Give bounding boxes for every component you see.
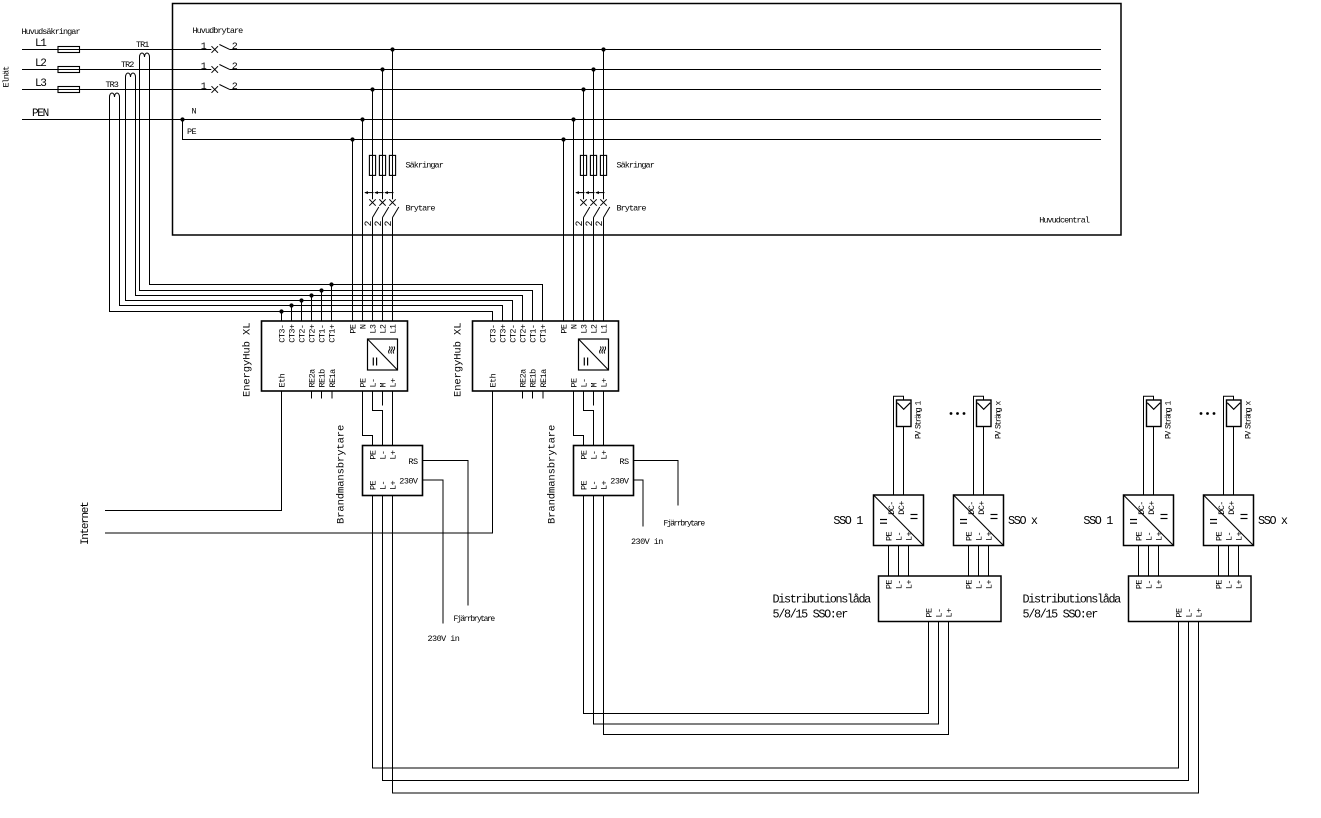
wire RE2a stub U1 [311,391,313,399]
svg-text:Elnät: Elnät [2,66,12,88]
svg-text:Huvudcentral: Huvudcentral [1039,216,1090,226]
wire L- SSO x->dist [978,546,980,577]
svg-text:M: M [379,383,389,388]
node L3 tap (group 1) [370,87,374,91]
svg-text:PE: PE [570,378,580,388]
svg-text:230V: 230V [610,477,630,487]
svg-text:PEN: PEN [32,108,49,120]
svg-text:L3: L3 [580,324,590,334]
wire RS->Fjarrbrytare S2 [634,461,679,506]
svg-text:L+: L+ [389,480,399,490]
svg-text:CT3+: CT3+ [499,324,509,343]
breaker Brytare L1 (group 2) [596,192,605,194]
svg-text:L-: L- [1225,532,1235,541]
fuse Sakringar L1 (group 1) [389,155,395,175]
wire L+ Brandmansbrytare2 -> Distributionslada 1 [604,496,949,735]
svg-text:2: 2 [232,62,238,73]
wire PV 1 DC+ [1153,427,1155,496]
svg-text:N: N [192,107,197,117]
svg-text:PE: PE [369,480,379,490]
transformer TR2 [126,73,136,77]
svg-text:230V in: 230V in [631,537,663,547]
svg-text:230V: 230V [399,477,419,487]
svg-text:N: N [570,324,580,329]
node PE tap (group 1) [350,137,354,141]
fuse Sakringar L3 (group 1) [369,155,375,175]
wire L- EnergyHub->Brandmansbrytare 2 [584,391,594,446]
svg-text:L-: L- [895,532,905,541]
wire PV x DC- (over top) [1224,396,1234,495]
svg-text:TR2: TR2 [121,60,134,70]
node L2 tap (group 1) [380,67,384,71]
svg-text:CT1+: CT1+ [539,324,549,343]
svg-text:L-: L- [1145,532,1155,541]
box Huvudcentral (main distribution board) [173,4,1122,236]
svg-text:RE1b: RE1b [529,369,539,388]
wire PE SSO x->dist [1218,546,1220,577]
svg-text:PE: PE [965,580,975,590]
svg-text:PE: PE [187,127,197,137]
svg-text:Fjärrbrytare: Fjärrbrytare [454,615,496,624]
svg-text:L-: L- [590,481,600,490]
svg-text:Eth: Eth [278,373,288,387]
wire L2 drop (group 1) [382,70,384,200]
svg-text:CT2+: CT2+ [519,324,529,343]
wire L2 drop (group 2) [593,70,595,200]
wire L- Brandmansbrytare2 -> Distributionslada 1 [594,496,939,725]
svg-text:L1: L1 [389,324,399,334]
node PE tap (group 2) [561,137,565,141]
svg-text:L-: L- [975,580,985,589]
node L3 tap (group 2) [581,87,585,91]
breaker Brytare L3 (group 2) [576,192,585,194]
wire L- SSO x->dist [1228,546,1230,577]
wire L1 drop (group 1) [392,50,394,200]
svg-text:DC-: DC- [967,501,977,515]
svg-text:Distributionslåda: Distributionslåda [773,593,872,607]
SSO optimizer box (string 1) [1124,495,1174,546]
wire CT2- from TR to hubs [126,77,513,321]
wire L+ SSO 1->dist [908,546,910,577]
wire L+ Brandmansbrytare1 -> Distributionslada 2 [393,496,1199,794]
svg-text:PE: PE [1175,608,1185,618]
svg-text:L+: L+ [985,531,995,541]
svg-text:PV Sträng x: PV Sträng x [1245,400,1254,439]
symbol DC right SSO x [991,514,998,516]
svg-text:PE: PE [1215,531,1225,541]
svg-text:CT2-: CT2- [298,325,308,343]
node L2 tap (group 2) [591,67,595,71]
symbol DC left SSO x [1210,519,1217,521]
wire PE Brandmansbrytare2 -> Distributionslada 1 [584,496,929,714]
svg-text:L+: L+ [905,580,915,590]
svg-text:RE1a: RE1a [539,369,549,388]
node CT3- junction at EnergyHub 1 [279,309,283,313]
wire RE1a stub U1 [331,391,333,399]
fuse main F-L2 [58,67,80,73]
PV panel string x [1227,400,1242,427]
SSO optimizer box (string x) [1204,495,1254,546]
svg-text:2: 2 [595,221,606,227]
fuse Sakringar L2 (group 1) [379,155,385,175]
wire PV 1 DC- (over top) [894,396,904,495]
svg-text:Huvudbrytare: Huvudbrytare [193,26,244,36]
wire RE1b stub U1 [321,391,323,399]
svg-text:PV Sträng 1: PV Sträng 1 [915,400,924,439]
wire PV x DC- (over top) [974,396,984,495]
wire phase L3 [22,89,211,91]
svg-text:Huvudsäkringar: Huvudsäkringar [22,27,81,37]
fuse main F-L1 [58,47,80,53]
svg-text:L-: L- [1225,580,1235,589]
svg-text:2: 2 [232,82,238,93]
svg-text:TR3: TR3 [106,80,119,90]
svg-text:Eth: Eth [489,373,499,387]
wire N drop (group 2) [573,120,575,322]
svg-text:L2: L2 [35,58,46,70]
svg-text:L+: L+ [600,450,610,460]
wire CT1+ from TR to hubs [150,57,543,321]
svg-text:EnergyHub XL: EnergyHub XL [453,323,465,397]
symbol DC left SSO 1 [1130,519,1137,521]
inverter symbol U2 [579,339,609,370]
svg-text:DC+: DC+ [897,501,907,515]
wire L+ SSO 1->dist [1158,546,1160,577]
wire RS->Fjarrbrytare S1 [423,461,469,606]
node dots (more strings) [1200,412,1203,415]
svg-text:L3: L3 [35,78,46,90]
node CT2+ junction at EnergyHub 1 [309,293,313,297]
wire PE EnergyHub->Brandmansbrytare 1 [363,391,373,446]
svg-text:5/8/15 SSO:er: 5/8/15 SSO:er [773,608,849,622]
symbol DC right SSO x [1241,514,1248,516]
svg-text:N: N [359,324,369,329]
svg-text:Distributionslåda: Distributionslåda [1023,593,1122,607]
wire CT2+ from TR to hubs [136,77,523,321]
SSO optimizer box (string 1) [874,495,924,546]
wire L- Brandmansbrytare1 -> Distributionslada 2 [383,496,1189,781]
svg-text:PE: PE [965,531,975,541]
PV panel string x [977,400,992,427]
svg-text:RE1b: RE1b [318,369,328,388]
Distributionslada box [879,576,1002,622]
svg-text:Säkringar: Säkringar [617,161,655,171]
svg-text:L+: L+ [945,608,955,618]
node N tap (group 1) [360,117,364,121]
svg-text:EnergyHub XL: EnergyHub XL [242,323,254,397]
Brandmansbrytare switch S1 box [363,446,423,496]
wire PE SSO 1->dist [1138,546,1140,577]
breaker Brytare L2 (group 1) [375,192,384,194]
wire RE2a stub U2 [522,391,524,399]
svg-text:PE: PE [359,378,369,388]
EnergyHub XL unit U1 box [262,321,408,391]
symbol DC right SSO 1 [1161,514,1168,516]
wire PE EnergyHub->Brandmansbrytare 2 [574,391,584,446]
svg-text:L2: L2 [379,324,389,334]
svg-text:L-: L- [590,451,600,460]
wire PE SSO 1->dist [888,546,890,577]
wire L- SSO 1->dist [1148,546,1150,577]
svg-text:Brytare: Brytare [406,204,436,214]
breaker Brytare L3 (group 1) [365,192,374,194]
symbol DC left SSO 1 [880,519,887,521]
wire L+ EnergyHub->Brandmansbrytare 1 [392,391,394,446]
svg-text:Internet: Internet [80,502,92,545]
svg-text:L+: L+ [905,531,915,541]
wire L- EnergyHub->Brandmansbrytare 1 [373,391,383,446]
svg-text:L-: L- [935,608,945,617]
svg-text:PE: PE [580,450,590,460]
svg-text:L+: L+ [1155,531,1165,541]
svg-text:L-: L- [1145,580,1155,589]
svg-text:1: 1 [201,82,207,93]
svg-text:PE: PE [925,608,935,618]
svg-text:DC+: DC+ [1227,501,1237,515]
svg-text:230V in: 230V in [428,634,460,644]
wire L3 drop (group 1) [372,90,374,200]
svg-text:PE: PE [580,480,590,490]
wire PE SSO x->dist [968,546,970,577]
svg-text:2: 2 [232,42,238,53]
svg-text:RE2a: RE2a [308,369,318,388]
svg-text:PV Sträng x: PV Sträng x [995,400,1004,439]
transformer TR1 [140,53,150,57]
svg-text:CT1+: CT1+ [328,324,338,343]
breaker Brytare L2 (group 2) [586,192,595,194]
fuse main F-L3 [58,87,80,93]
wire PE drop (group 1) [352,140,354,322]
wire PE Brandmansbrytare1 -> Distributionslada 2 [373,496,1179,769]
wire M stub EnergyHub 1 [382,391,384,406]
wire Eth U2->Internet [105,391,493,533]
wire Eth U1->Internet [105,391,282,511]
svg-text:SSO 1: SSO 1 [833,514,863,528]
svg-text:L-: L- [580,378,590,387]
wire L+ SSO x->dist [1238,546,1240,577]
svg-text:5/8/15 SSO:er: 5/8/15 SSO:er [1023,608,1099,622]
svg-text:RE1a: RE1a [328,369,338,388]
svg-text:DC+: DC+ [1147,501,1157,515]
wire PEN/N line [22,119,1101,121]
wire PV 1 DC+ [903,427,905,496]
wire phase L1 [22,49,211,51]
svg-text:L+: L+ [1235,531,1245,541]
node CT3+ junction at EnergyHub 1 [289,303,293,307]
node CT1- junction at EnergyHub 1 [319,288,323,292]
svg-text:L+: L+ [1195,608,1205,618]
svg-text:L1: L1 [35,38,47,50]
svg-text:L+: L+ [389,378,399,388]
svg-text:L2: L2 [590,324,600,334]
Distributionslada box [1129,576,1252,622]
wire PE line [183,120,1102,140]
wire CT3- from TR to hubs [110,97,493,321]
svg-text:CT3-: CT3- [489,325,499,343]
fuse Sakringar L2 (group 2) [590,155,596,175]
svg-text:L+: L+ [985,580,995,590]
svg-text:L+: L+ [389,450,399,460]
svg-text:PE: PE [885,580,895,590]
svg-text:L+: L+ [1155,580,1165,590]
svg-text:Säkringar: Säkringar [406,161,444,171]
svg-text:SSO x: SSO x [1008,514,1038,528]
svg-text:L-: L- [379,481,389,490]
svg-text:DC-: DC- [1217,501,1227,515]
EnergyHub XL unit U2 box [473,321,619,391]
svg-text:PE: PE [1135,580,1145,590]
svg-text:PV Sträng 1: PV Sträng 1 [1165,400,1174,439]
svg-text:1: 1 [201,42,207,53]
svg-text:Brandmansbrytare: Brandmansbrytare [336,425,348,524]
svg-text:PE: PE [349,324,359,334]
svg-text:L3: L3 [369,324,379,334]
svg-text:L+: L+ [600,378,610,388]
svg-text:L1: L1 [600,324,610,334]
inverter symbol U1 [368,339,398,370]
svg-text:L-: L- [369,378,379,387]
svg-text:DC+: DC+ [977,501,987,515]
wire L3 drop (group 2) [583,90,585,200]
svg-text:PE: PE [369,450,379,460]
wire PV x DC+ [983,427,985,496]
node N tap (group 2) [571,117,575,121]
PV panel string 1 [1147,400,1162,427]
Brandmansbrytare switch S2 box [574,446,634,496]
svg-text:PE: PE [560,324,570,334]
svg-text:RS: RS [408,457,418,467]
wire 230V in S1 [423,480,444,624]
wire L+ EnergyHub->Brandmansbrytare 2 [603,391,605,446]
fuse Sakringar L1 (group 2) [600,155,606,175]
svg-text:DC-: DC- [887,501,897,515]
node L1 tap (group 1) [390,47,394,51]
svg-text:CT3-: CT3- [278,325,288,343]
svg-text:1: 1 [201,62,207,73]
wire RE1b stub U2 [532,391,534,399]
svg-text:PE: PE [1135,531,1145,541]
wire L- SSO 1->dist [898,546,900,577]
node CT1+ junction at EnergyHub 1 [329,282,333,286]
wire RE1a stub U2 [542,391,544,399]
svg-text:Brandmansbrytare: Brandmansbrytare [547,425,559,524]
svg-text:M: M [590,383,600,388]
wire L1 drop (group 2) [603,50,605,200]
svg-text:PE: PE [1215,580,1225,590]
wire CT3+ from TR to hubs [120,97,503,321]
svg-text:L+: L+ [1235,580,1245,590]
wire PE drop (group 2) [563,140,565,322]
SSO optimizer box (string x) [954,495,1004,546]
wire M stub EnergyHub 2 [593,391,595,406]
wire CT1- from TR to hubs [140,57,533,321]
svg-text:Fjärrbrytare: Fjärrbrytare [664,520,706,529]
svg-text:CT2+: CT2+ [308,324,318,343]
svg-text:CT2-: CT2- [509,325,519,343]
svg-text:PE: PE [885,531,895,541]
svg-text:L-: L- [379,451,389,460]
svg-text:TR1: TR1 [136,40,149,50]
svg-text:Brytare: Brytare [617,204,647,214]
svg-text:SSO 1: SSO 1 [1083,514,1113,528]
wire L+ SSO x->dist [988,546,990,577]
fuse Sakringar L3 (group 2) [580,155,586,175]
wire PV x DC+ [1233,427,1235,496]
wire phase L2 [22,69,211,71]
svg-text:L-: L- [1185,608,1195,617]
svg-text:2: 2 [384,221,395,227]
svg-text:L+: L+ [600,480,610,490]
wire PV 1 DC- (over top) [1144,396,1154,495]
transformer TR3 [110,93,120,97]
wire N drop (group 1) [362,120,364,322]
node PE tap from N [180,117,184,121]
wire 230V in S2 [634,480,644,527]
svg-text:DC-: DC- [1137,501,1147,515]
node L1 tap (group 2) [601,47,605,51]
PV panel string 1 [897,400,912,427]
node dots (more strings) [950,412,953,415]
svg-text:RE2a: RE2a [519,369,529,388]
svg-text:CT1-: CT1- [318,325,328,343]
svg-text:L-: L- [975,532,985,541]
symbol DC right SSO 1 [911,514,918,516]
svg-text:CT1-: CT1- [529,325,539,343]
node CT2- junction at EnergyHub 1 [299,298,303,302]
svg-text:SSO x: SSO x [1258,514,1288,528]
symbol DC left SSO x [960,519,967,521]
svg-text:RS: RS [619,457,629,467]
svg-text:L-: L- [895,580,905,589]
svg-text:CT3+: CT3+ [288,324,298,343]
breaker Brytare L1 (group 1) [385,192,394,194]
